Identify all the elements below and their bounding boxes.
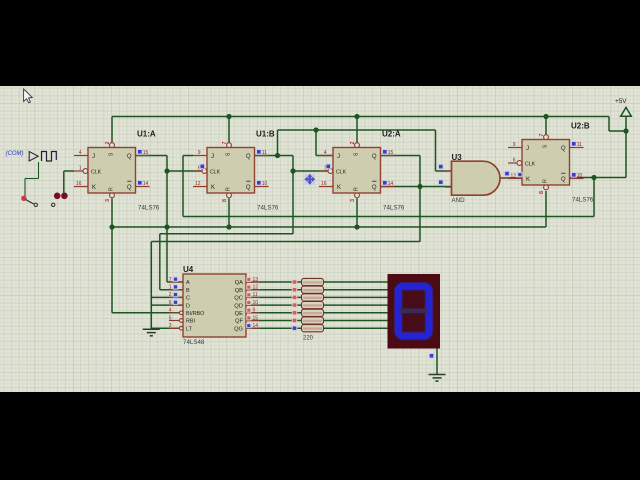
svg-text:12: 12 [511, 174, 517, 180]
svg-text:Q: Q [246, 154, 251, 160]
svg-text:U2:B: U2:B [571, 122, 590, 131]
svg-text:4: 4 [79, 150, 82, 156]
svg-text:74LS76: 74LS76 [383, 205, 405, 212]
svg-text:7: 7 [222, 142, 228, 145]
svg-text:16: 16 [321, 181, 327, 187]
svg-text:CLK: CLK [336, 169, 347, 175]
svg-text:J: J [337, 154, 340, 160]
svg-text:15: 15 [143, 150, 149, 156]
svg-text:K: K [337, 185, 341, 191]
svg-text:14: 14 [253, 323, 259, 329]
svg-text:2: 2 [105, 142, 111, 145]
svg-text:12: 12 [253, 285, 259, 291]
svg-text:74LS48: 74LS48 [183, 339, 205, 346]
svg-text:9: 9 [253, 308, 256, 314]
svg-text:K: K [92, 185, 96, 191]
svg-text:6: 6 [513, 158, 516, 164]
svg-text:RBI: RBI [186, 319, 195, 325]
svg-text:Q: Q [561, 177, 566, 183]
svg-text:QC: QC [234, 296, 243, 302]
svg-text:Q: Q [372, 185, 377, 191]
svg-text:U2:A: U2:A [382, 130, 401, 139]
svg-text:2: 2 [350, 142, 356, 145]
svg-text:LT: LT [186, 326, 193, 332]
svg-text:Q: Q [127, 154, 132, 160]
svg-text:3: 3 [169, 323, 172, 329]
svg-text:J: J [211, 154, 214, 160]
svg-text:(COM): (COM) [6, 151, 24, 157]
svg-text:CLK: CLK [210, 169, 221, 175]
svg-text:7: 7 [169, 277, 172, 283]
svg-text:A: A [186, 280, 190, 286]
svg-text:1: 1 [169, 285, 172, 291]
svg-text:74LS76: 74LS76 [572, 197, 594, 204]
svg-text:11: 11 [577, 142, 582, 148]
svg-text:K: K [211, 185, 215, 191]
svg-text:8: 8 [222, 199, 228, 202]
svg-text:3: 3 [350, 199, 356, 202]
svg-text:14: 14 [143, 181, 149, 187]
svg-text:1: 1 [79, 166, 82, 172]
svg-text:8: 8 [539, 191, 545, 194]
svg-text:U4: U4 [183, 265, 194, 274]
svg-text:U1:B: U1:B [256, 130, 275, 139]
svg-text:D: D [186, 303, 190, 309]
svg-text:10: 10 [577, 173, 583, 179]
svg-text:Q: Q [246, 185, 251, 191]
svg-text:QE: QE [235, 311, 244, 317]
svg-text:15: 15 [388, 150, 394, 156]
svg-text:Q: Q [372, 154, 377, 160]
svg-text:Q: Q [127, 185, 132, 191]
svg-text:10: 10 [253, 300, 259, 306]
svg-text:QG: QG [234, 326, 244, 332]
svg-text:AND: AND [452, 197, 466, 204]
svg-text:J: J [526, 146, 529, 152]
svg-text:12: 12 [195, 181, 201, 187]
svg-text:QD: QD [234, 303, 243, 309]
svg-text:U1:A: U1:A [137, 130, 156, 139]
svg-text:10: 10 [262, 181, 268, 187]
svg-text:220: 220 [303, 336, 314, 342]
svg-text:11: 11 [262, 150, 267, 156]
svg-text:QA: QA [235, 280, 244, 286]
svg-text:7: 7 [539, 134, 545, 137]
svg-text:6: 6 [169, 300, 172, 306]
svg-text:5: 5 [169, 315, 172, 321]
svg-text:BI/RBO: BI/RBO [186, 311, 204, 317]
svg-text:4: 4 [169, 308, 172, 314]
svg-text:R: R [543, 179, 549, 183]
svg-text:R: R [354, 187, 360, 191]
svg-text:9: 9 [513, 142, 516, 148]
svg-text:K: K [526, 177, 530, 183]
svg-text:+5V: +5V [615, 98, 627, 105]
svg-text:B: B [186, 288, 190, 294]
svg-text:Q: Q [561, 146, 566, 152]
svg-text:11: 11 [253, 292, 258, 298]
svg-text:13: 13 [253, 277, 259, 283]
svg-text:74LS76: 74LS76 [138, 205, 160, 212]
svg-text:CLK: CLK [91, 169, 102, 175]
svg-text:16: 16 [76, 181, 82, 187]
svg-text:9: 9 [198, 150, 201, 156]
svg-text:J: J [92, 154, 95, 160]
svg-text:QB: QB [235, 288, 244, 294]
svg-text:CLK: CLK [525, 161, 536, 167]
svg-text:15: 15 [253, 315, 259, 321]
svg-text:R: R [109, 187, 115, 191]
svg-text:74LS76: 74LS76 [257, 205, 279, 212]
svg-text:QF: QF [235, 319, 244, 325]
svg-text:R: R [226, 187, 232, 191]
svg-text:14: 14 [388, 181, 394, 187]
svg-text:C: C [186, 296, 190, 302]
svg-text:4: 4 [324, 150, 327, 156]
svg-text:2: 2 [169, 292, 172, 298]
svg-text:3: 3 [105, 199, 111, 202]
